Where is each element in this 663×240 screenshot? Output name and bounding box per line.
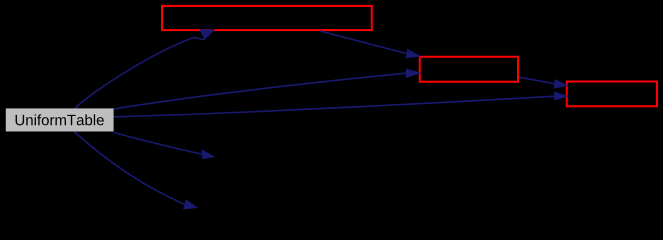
arrowhead into middle red box left (406, 69, 422, 78)
edge middle red box to right red box (519, 77, 554, 84)
arrowhead into middle red box top-left (405, 49, 421, 59)
arrowhead into right red box upper (554, 79, 569, 89)
arrowhead into right red box lower (554, 92, 569, 101)
edge UniformTable to hidden node 1 (114, 132, 202, 154)
arrowhead hidden node 1 (202, 149, 216, 159)
edge UniformTable to right red box (114, 96, 554, 117)
middle red box (420, 57, 518, 82)
right red box (567, 82, 657, 107)
edge UniformTable to top red box (curved) (75, 38, 205, 109)
top red box (162, 6, 372, 30)
edge UniformTable to middle red box (114, 73, 406, 109)
edge UniformTable to hidden node 2 (curved) (75, 132, 185, 204)
arrowhead into top red box (199, 29, 215, 40)
arrowhead hidden node 2 (183, 199, 198, 209)
label UniformTable text (16, 114, 104, 125)
edge top red box to middle red box (320, 31, 406, 54)
node UniformTable (6, 108, 114, 131)
